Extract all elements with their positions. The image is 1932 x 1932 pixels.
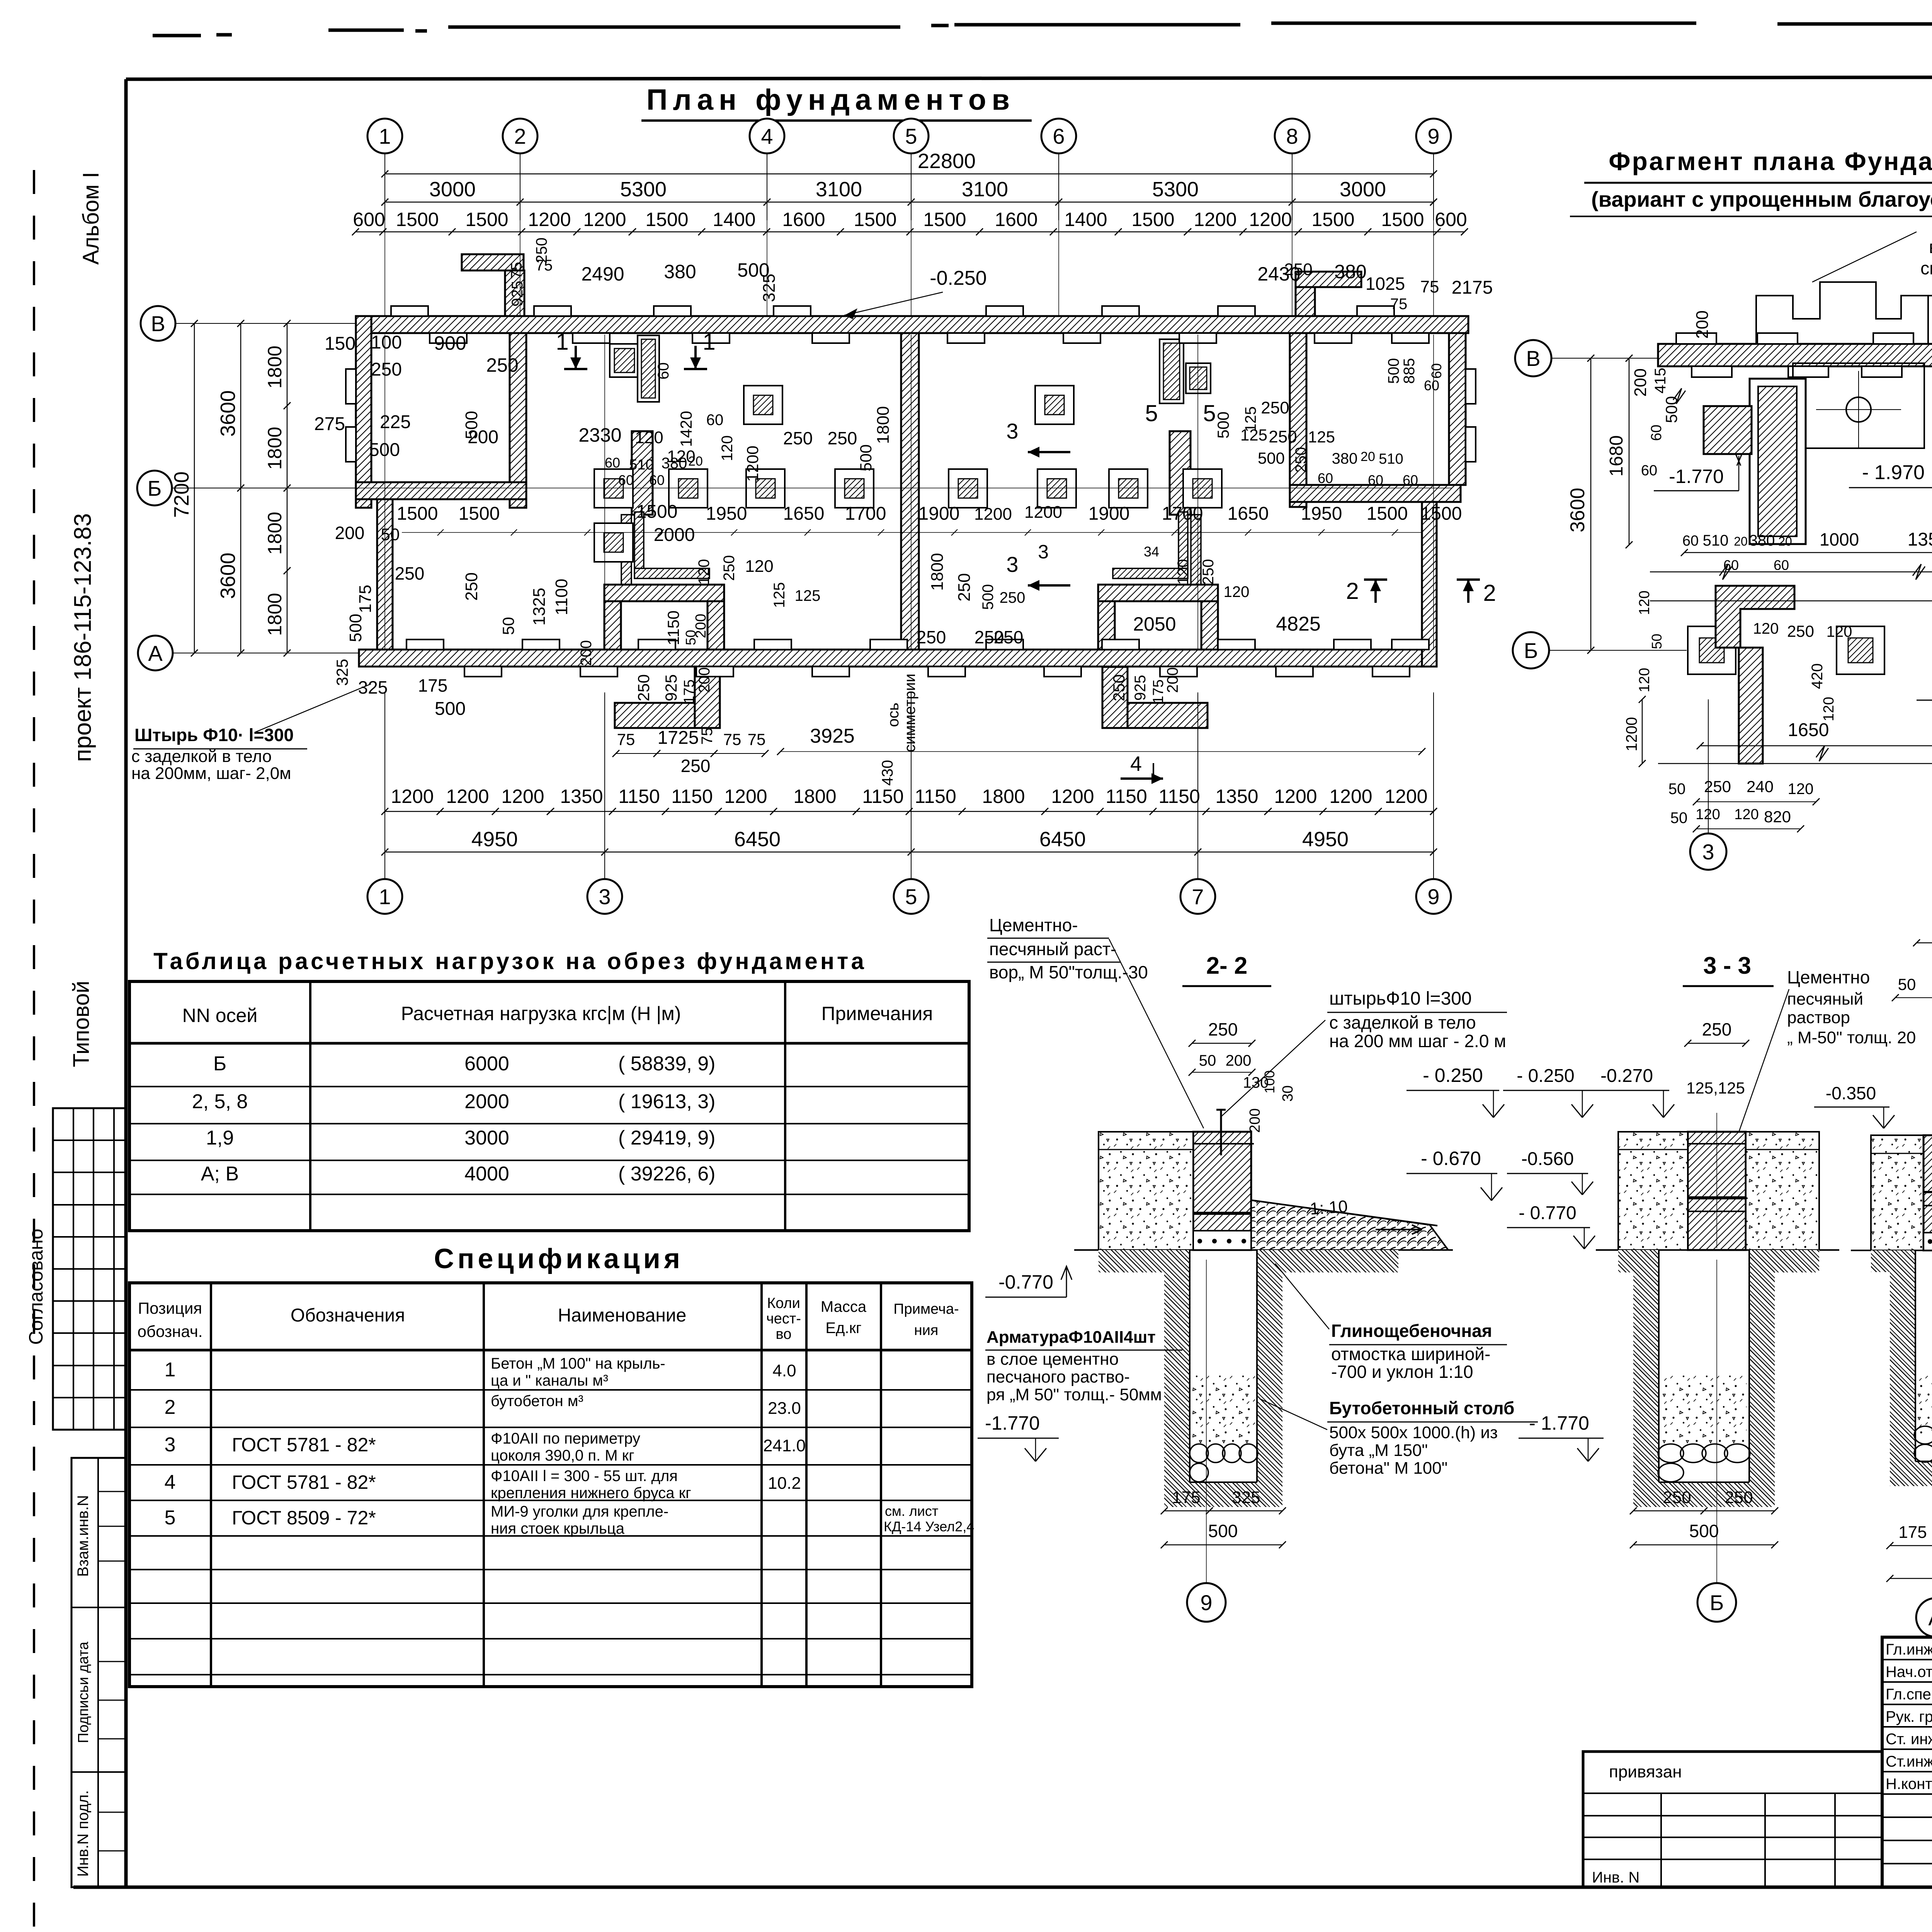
- svg-text:Штырь Ф10· l=300: Штырь Ф10· l=300: [134, 725, 294, 745]
- svg-text:NN осей: NN осей: [182, 1005, 258, 1026]
- svg-text:925: 925: [662, 674, 680, 701]
- fragment outline piers above wall: [1756, 282, 1932, 344]
- svg-text:с заделкой в тело: с заделкой в тело: [1329, 1012, 1476, 1032]
- svg-text:60: 60: [655, 362, 672, 380]
- svg-text:925: 925: [509, 281, 526, 307]
- svg-text:225: 225: [380, 412, 411, 432]
- s2 pit fill: [1192, 1376, 1255, 1445]
- s2 bottom dims: [1164, 1510, 1282, 1512]
- spec table box: [129, 1283, 972, 1687]
- svg-text:500: 500: [857, 444, 875, 471]
- svg-text:ось: ось: [885, 702, 902, 727]
- svg-text:60: 60: [1641, 463, 1657, 479]
- svg-text:1420: 1420: [677, 411, 695, 447]
- svg-text:50: 50: [381, 525, 400, 544]
- svg-text:во: во: [776, 1326, 792, 1342]
- svg-text:6450: 6450: [1039, 828, 1086, 851]
- porch hook below А right: [1102, 703, 1207, 728]
- svg-text:1950: 1950: [706, 503, 747, 524]
- svg-text:чест-: чест-: [766, 1311, 801, 1327]
- svg-text:50: 50: [1199, 1052, 1216, 1069]
- svg-text:2: 2: [514, 124, 526, 148]
- svg-text:1600: 1600: [995, 209, 1037, 230]
- svg-text:75: 75: [536, 257, 553, 274]
- svg-text:1500: 1500: [1381, 209, 1424, 230]
- svg-text:1: 1: [165, 1359, 176, 1381]
- bottom segment dims: [385, 852, 1434, 853]
- fragment big hatched pier: [1750, 379, 1806, 544]
- svg-text:200: 200: [335, 523, 365, 543]
- svg-text:1400: 1400: [1064, 209, 1107, 230]
- dim line porch bottom: [616, 753, 765, 754]
- svg-text:1725: 1725: [658, 728, 699, 748]
- svg-text:Бутобетонный столб: Бутобетонный столб: [1329, 1398, 1514, 1418]
- svg-text:3000: 3000: [464, 1127, 509, 1149]
- svg-text:60: 60: [1648, 425, 1665, 441]
- svg-text:3600: 3600: [1566, 488, 1589, 532]
- svg-text:3: 3: [165, 1434, 176, 1456]
- svg-text:1650: 1650: [1228, 503, 1269, 524]
- plan axis circles top row: [367, 119, 402, 153]
- svg-text:бетона" М 100": бетона" М 100": [1329, 1459, 1447, 1478]
- svg-text:60: 60: [649, 472, 665, 488]
- svg-text:- 1.970: - 1.970: [1862, 461, 1925, 484]
- svg-text:4000: 4000: [464, 1163, 509, 1185]
- svg-text:120: 120: [1734, 806, 1759, 823]
- svg-text:3: 3: [599, 884, 611, 909]
- svg-text:250: 250: [721, 555, 738, 581]
- svg-text:1700: 1700: [1931, 720, 1932, 740]
- svg-text:4: 4: [761, 124, 773, 148]
- svg-text:1150: 1150: [671, 786, 713, 807]
- svg-text:отмостка шириной-: отмостка шириной-: [1331, 1344, 1490, 1364]
- svg-text:крепления нижнего бруса кг: крепления нижнего бруса кг: [491, 1485, 691, 1502]
- svg-text:200: 200: [693, 614, 709, 638]
- section-4 arrow: [1121, 777, 1163, 780]
- svg-text:9: 9: [1427, 124, 1439, 148]
- s3 soils: [1618, 1132, 1688, 1250]
- svg-text:1800: 1800: [982, 786, 1025, 807]
- svg-text:125,125: 125,125: [1686, 1079, 1745, 1097]
- svg-text:250: 250: [917, 627, 946, 647]
- svg-text:60: 60: [1429, 363, 1444, 379]
- svg-text:Гл.спец.: Гл.спец.: [1886, 1686, 1932, 1703]
- svg-text:Коли: Коли: [767, 1295, 800, 1311]
- svg-text:1200: 1200: [583, 209, 626, 230]
- svg-text:Инв.N подл.: Инв.N подл.: [75, 1790, 92, 1877]
- svg-text:цоколя 390,0 п. М кг: цоколя 390,0 п. М кг: [491, 1447, 634, 1464]
- svg-text:ГОСТ 5781 - 82*: ГОСТ 5781 - 82*: [232, 1471, 376, 1493]
- Б wall segment of NW room: [356, 482, 526, 499]
- svg-text:2000: 2000: [654, 525, 695, 545]
- svg-text:1150: 1150: [664, 611, 682, 645]
- svg-text:34: 34: [1144, 544, 1159, 560]
- svg-text:60: 60: [1318, 470, 1333, 486]
- fragment break lines: [1719, 564, 1732, 580]
- svg-text:1150: 1150: [915, 786, 956, 807]
- svg-text:20: 20: [688, 454, 703, 469]
- svg-text:500: 500: [1208, 1521, 1238, 1541]
- svg-text:500: 500: [1214, 412, 1232, 439]
- svg-text:5: 5: [1203, 400, 1216, 426]
- svg-text:обознач.: обознач.: [138, 1322, 203, 1340]
- s2 anchor rod: [1220, 1109, 1222, 1155]
- svg-text:раствор: раствор: [1787, 1008, 1850, 1027]
- svg-text:250: 250: [1702, 1019, 1732, 1039]
- svg-text:4950: 4950: [471, 828, 518, 851]
- svg-text:75: 75: [617, 730, 635, 748]
- svg-text:Бетон „М 100" на крыль-: Бетон „М 100" на крыль-: [491, 1355, 665, 1372]
- svg-text:60: 60: [605, 455, 620, 471]
- svg-text:250: 250: [783, 428, 813, 448]
- svg-text:120: 120: [635, 428, 663, 447]
- porch room centre-left: [604, 585, 724, 601]
- drawing frame: [126, 77, 1932, 79]
- svg-text:1700: 1700: [845, 503, 886, 524]
- svg-text:1800: 1800: [264, 345, 286, 388]
- svg-text:250: 250: [634, 674, 653, 701]
- svg-text:3100: 3100: [816, 178, 862, 201]
- svg-text:380: 380: [664, 261, 696, 282]
- chimney block left: [610, 344, 639, 377]
- interior dim line row: [402, 532, 1422, 533]
- svg-text:325: 325: [333, 659, 351, 686]
- svg-text:на 200мм, шаг- 2,0м: на 200мм, шаг- 2,0м: [131, 764, 291, 783]
- wall below Б to А (axis 1 area): [377, 499, 393, 650]
- svg-text:Нач.отд.: Нач.отд.: [1886, 1663, 1932, 1680]
- NE room left wall (axis 8): [1290, 333, 1306, 507]
- NW porch walls above В: [462, 254, 524, 270]
- svg-text:50: 50: [1898, 975, 1916, 993]
- svg-text:1500: 1500: [1421, 503, 1462, 524]
- svg-text:125: 125: [771, 582, 788, 608]
- s2 отмостка slope: [1251, 1200, 1448, 1250]
- svg-text:песчяный раст-: песчяный раст-: [989, 939, 1116, 959]
- svg-text:250: 250: [1725, 1488, 1753, 1507]
- s4 bottom dims big pit: [1890, 1545, 1932, 1546]
- section-3 arrows: [1028, 451, 1070, 453]
- svg-text:Цементно-: Цементно-: [989, 915, 1078, 935]
- svg-text:Типовой: Типовой: [69, 981, 94, 1067]
- svg-text:9: 9: [1200, 1590, 1212, 1615]
- svg-text:Примечания: Примечания: [821, 1003, 933, 1024]
- svg-text:1150: 1150: [1105, 786, 1147, 807]
- svg-text:ца и " каналы м³: ца и " каналы м³: [491, 1372, 608, 1389]
- svg-text:500: 500: [980, 584, 997, 610]
- В wall (top strip wall): [356, 316, 1468, 333]
- svg-text:20: 20: [1778, 534, 1792, 548]
- svg-text:- 0.250: - 0.250: [1423, 1065, 1483, 1086]
- svg-text:120: 120: [1827, 623, 1852, 640]
- svg-text:900: 900: [434, 332, 466, 354]
- svg-text:60: 60: [1424, 378, 1439, 393]
- piers on Б axis: [594, 469, 633, 508]
- svg-text:А: А: [1928, 1605, 1932, 1630]
- svg-text:120: 120: [745, 557, 773, 576]
- svg-text:500х 500х 1000.(h) из: 500х 500х 1000.(h) из: [1329, 1423, 1498, 1442]
- svg-text:1800: 1800: [264, 512, 286, 554]
- svg-text:1: 1: [556, 329, 568, 355]
- svg-text:см. лист: см. лист: [885, 1503, 938, 1519]
- s3 ground + pit: [1596, 1249, 1839, 1251]
- fragment wall pilasters: [1676, 333, 1716, 344]
- svg-text:600: 600: [1435, 209, 1467, 230]
- svg-text:(вариант с упрощенным благоуст: (вариант с упрощенным благоустройством): [1591, 187, 1932, 211]
- central symmetry wall (axis 5): [901, 333, 919, 650]
- svg-text:( 19613, 3): ( 19613, 3): [618, 1090, 716, 1113]
- svg-text:1150: 1150: [862, 786, 904, 807]
- svg-text:3: 3: [1702, 840, 1714, 864]
- svg-text:3000: 3000: [429, 178, 476, 201]
- svg-text:120: 120: [719, 435, 736, 461]
- svg-text:250: 250: [1208, 1019, 1238, 1039]
- svg-text:1,9: 1,9: [206, 1127, 234, 1149]
- svg-text:75: 75: [699, 728, 716, 745]
- svg-text:1500: 1500: [1311, 209, 1354, 230]
- svg-text:Ф10АII l = 300 - 55 шт. для: Ф10АII l = 300 - 55 шт. для: [491, 1468, 678, 1485]
- svg-text:3 - 3: 3 - 3: [1703, 952, 1751, 979]
- svg-text:3600: 3600: [216, 553, 240, 599]
- svg-text:Обозначения: Обозначения: [291, 1305, 405, 1326]
- svg-text:2- 2: 2- 2: [1206, 952, 1248, 979]
- svg-text:125: 125: [795, 587, 821, 604]
- svg-text:1900: 1900: [1088, 503, 1130, 524]
- svg-text:1800: 1800: [264, 427, 286, 469]
- fragment small hatched pier: [1704, 406, 1752, 454]
- NW room right wall (axis 2): [510, 333, 526, 508]
- svg-text:250: 250: [1293, 447, 1310, 473]
- svg-text:500: 500: [1385, 358, 1402, 384]
- svg-text:250: 250: [462, 572, 481, 600]
- svg-text:см. лист КЖ-5: см. лист КЖ-5: [1920, 258, 1932, 278]
- left vertical dims: [194, 323, 195, 653]
- porch hook below А left: [615, 703, 720, 728]
- svg-text:-700 и уклон 1:10: -700 и уклон 1:10: [1331, 1362, 1473, 1382]
- svg-text:500: 500: [369, 440, 400, 460]
- svg-text:- 1.770: - 1.770: [1529, 1412, 1589, 1434]
- chimney block right: [1160, 339, 1184, 403]
- svg-text:60: 60: [1403, 472, 1418, 488]
- svg-text:9: 9: [1427, 884, 1439, 909]
- svg-text:175: 175: [1172, 1488, 1200, 1507]
- svg-text:бута „М 150": бута „М 150": [1329, 1441, 1428, 1460]
- svg-text:885: 885: [1401, 358, 1418, 384]
- zigzag vent wall left: [632, 431, 653, 515]
- overall dim 22800: [385, 173, 1434, 175]
- svg-text:2000: 2000: [464, 1090, 509, 1113]
- fragment cesspool circle: [1846, 397, 1871, 422]
- svg-text:250: 250: [1110, 674, 1128, 701]
- svg-text:1600: 1600: [782, 209, 825, 230]
- svg-text:60: 60: [706, 412, 724, 429]
- svg-text:1200: 1200: [501, 786, 544, 807]
- svg-text:120: 120: [1224, 583, 1250, 600]
- svg-text:Б: Б: [213, 1053, 226, 1075]
- bottom fine dims row: [385, 811, 1434, 812]
- svg-text:1950: 1950: [1301, 503, 1342, 524]
- svg-text:420: 420: [1809, 663, 1826, 689]
- svg-text:1200: 1200: [1274, 786, 1317, 807]
- svg-text:1700: 1700: [1162, 503, 1203, 524]
- svg-text:- 0.670: - 0.670: [1421, 1148, 1481, 1169]
- svg-text:20: 20: [1361, 449, 1375, 464]
- s2 axis circle 9: [1187, 1583, 1226, 1622]
- svg-text:1200: 1200: [446, 786, 489, 807]
- right wall below Б: [1422, 502, 1437, 667]
- svg-text:( 39226, 6): ( 39226, 6): [618, 1163, 716, 1185]
- svg-text:ГОСТ 8509 - 72*: ГОСТ 8509 - 72*: [232, 1507, 376, 1529]
- svg-text:Глинощебеночная: Глинощебеночная: [1331, 1321, 1492, 1341]
- svg-text:1200: 1200: [528, 209, 571, 230]
- svg-text:4825: 4825: [1276, 613, 1321, 635]
- svg-text:Цементно: Цементно: [1787, 967, 1870, 987]
- s3 axis circle Б: [1697, 1583, 1736, 1622]
- s2 top dims: [1192, 1043, 1252, 1044]
- svg-text:Расчетная нагрузка кгс|м (Н: Расчетная нагрузка кгс|м (Н |м): [401, 1003, 681, 1024]
- svg-text:250: 250: [1787, 622, 1814, 640]
- s4 top dims: [1917, 942, 1932, 944]
- svg-text:5: 5: [905, 884, 917, 909]
- svg-text:Ст.инж.: Ст.инж.: [1886, 1753, 1932, 1770]
- leader for -0.250: [844, 292, 943, 315]
- svg-text:Инв. N: Инв. N: [1592, 1869, 1639, 1886]
- svg-text:1200: 1200: [1329, 786, 1372, 807]
- svg-text:1500: 1500: [645, 209, 688, 230]
- zigzag vent wall right (mirror): [1170, 431, 1190, 515]
- svg-text:120: 120: [1753, 620, 1779, 637]
- svg-text:Позиция: Позиция: [138, 1299, 202, 1317]
- right wall (axis 9): [1449, 333, 1466, 485]
- svg-text:250: 250: [371, 359, 402, 380]
- svg-text:-1.770: -1.770: [1669, 466, 1724, 487]
- svg-text:Ед.кг: Ед.кг: [825, 1320, 861, 1337]
- svg-text:1350: 1350: [560, 786, 603, 807]
- svg-text:бутобетон м³: бутобетон м³: [491, 1393, 583, 1410]
- svg-text:В: В: [151, 311, 165, 336]
- svg-text:4: 4: [165, 1471, 176, 1493]
- svg-text:120: 120: [1788, 781, 1814, 798]
- svg-text:КД-14 Узел2,4: КД-14 Узел2,4: [884, 1519, 974, 1534]
- svg-text:510: 510: [629, 457, 653, 473]
- svg-text:1800: 1800: [793, 786, 836, 807]
- svg-text:3100: 3100: [962, 178, 1008, 201]
- svg-text:1025: 1025: [1366, 274, 1405, 294]
- svg-text:200: 200: [1164, 667, 1181, 693]
- svg-text:380: 380: [662, 455, 687, 472]
- s2 ground line: [1074, 1249, 1453, 1251]
- svg-text:1325: 1325: [530, 588, 549, 626]
- svg-text:250: 250: [1269, 427, 1297, 446]
- fragment long thin lines (interrupted walls): [1650, 571, 1932, 573]
- svg-text:- 0.250: - 0.250: [1517, 1066, 1574, 1086]
- svg-text:1500: 1500: [459, 503, 500, 524]
- svg-text:-0.770: -0.770: [998, 1271, 1053, 1293]
- svg-text:120: 120: [1821, 697, 1837, 721]
- svg-text:925: 925: [1132, 675, 1149, 701]
- svg-text:125: 125: [1308, 428, 1335, 446]
- svg-text:380: 380: [1332, 450, 1358, 467]
- axis thin lines through plan: [384, 153, 385, 316]
- bottom axis circles: [367, 879, 402, 914]
- wall pilasters: [391, 306, 428, 316]
- svg-text:1350: 1350: [1908, 529, 1932, 550]
- s3 centre line: [1716, 1113, 1717, 1248]
- svg-text:1400: 1400: [713, 209, 755, 230]
- svg-text:325: 325: [760, 274, 779, 302]
- svg-text:1200: 1200: [1623, 717, 1640, 752]
- svg-text:2050: 2050: [1133, 613, 1176, 635]
- svg-text:Масса: Масса: [821, 1298, 867, 1315]
- svg-text:3000: 3000: [1340, 178, 1386, 201]
- svg-text:1200: 1200: [1024, 503, 1062, 522]
- svg-text:„ М-50" толщ. 20: „ М-50" толщ. 20: [1787, 1028, 1916, 1047]
- svg-text:250: 250: [1261, 398, 1289, 417]
- svg-text:250: 250: [994, 627, 1024, 647]
- svg-text:1350: 1350: [1215, 786, 1258, 807]
- left wall of NW room: [356, 316, 371, 508]
- svg-text:250: 250: [486, 354, 518, 376]
- svg-text:3925: 3925: [810, 725, 855, 747]
- svg-text:10.2: 10.2: [768, 1474, 801, 1493]
- svg-text:Альбом I: Альбом I: [78, 172, 104, 265]
- svg-text:5300: 5300: [620, 178, 667, 201]
- svg-text:150: 150: [325, 333, 355, 354]
- svg-text:А: А: [148, 641, 163, 665]
- svg-text:1200: 1200: [1249, 209, 1292, 230]
- svg-text:325: 325: [1232, 1488, 1260, 1507]
- fragment В wall: [1658, 344, 1932, 366]
- fine dims row: [355, 231, 1464, 233]
- s4 axis circle А: [1916, 1598, 1932, 1637]
- svg-text:Ф10АII по периметру: Ф10АII по периметру: [491, 1430, 640, 1447]
- svg-text:415: 415: [1652, 368, 1669, 394]
- svg-text:-0.560: -0.560: [1521, 1149, 1574, 1169]
- svg-text:Б: Б: [1710, 1590, 1724, 1615]
- svg-text:5: 5: [905, 124, 917, 148]
- svg-text:5: 5: [1145, 400, 1158, 426]
- svg-text:200: 200: [1631, 368, 1650, 396]
- svg-text:1500: 1500: [1131, 209, 1174, 230]
- svg-text:Фрагмент плана Фундаментов: Фрагмент плана Фундаментов: [1609, 147, 1932, 175]
- svg-text:4.0: 4.0: [772, 1361, 796, 1380]
- s2 pier: [1193, 1132, 1251, 1250]
- svg-text:6450: 6450: [734, 828, 781, 851]
- svg-text:175: 175: [356, 585, 375, 613]
- svg-text:50: 50: [499, 617, 517, 635]
- isolated piers: [744, 386, 782, 424]
- svg-text:20: 20: [1734, 534, 1748, 548]
- svg-text:500: 500: [435, 699, 466, 719]
- svg-text:в слое цементно: в слое цементно: [986, 1350, 1119, 1369]
- svg-text:75: 75: [1390, 296, 1408, 313]
- svg-text:-0.270: -0.270: [1600, 1066, 1653, 1086]
- svg-text:22800: 22800: [918, 150, 976, 173]
- svg-text:1200: 1200: [974, 505, 1012, 524]
- svg-text:АрматураФ10АII4шт: АрматураФ10АII4шт: [986, 1328, 1156, 1347]
- svg-text:ния: ния: [914, 1322, 939, 1338]
- svg-text:1500: 1500: [396, 209, 439, 230]
- svg-text:Рук. гр.: Рук. гр.: [1886, 1708, 1932, 1725]
- svg-text:5: 5: [165, 1507, 176, 1529]
- svg-text:2330: 2330: [578, 424, 621, 446]
- svg-text:МИ-9 уголки для крепле-: МИ-9 уголки для крепле-: [491, 1503, 668, 1520]
- svg-text:50: 50: [1670, 810, 1688, 827]
- svg-text:120: 120: [1175, 559, 1192, 585]
- s3 pier: [1688, 1132, 1746, 1250]
- svg-text:200: 200: [1693, 310, 1712, 338]
- svg-text:1200: 1200: [724, 786, 767, 807]
- svg-text:250: 250: [955, 573, 974, 601]
